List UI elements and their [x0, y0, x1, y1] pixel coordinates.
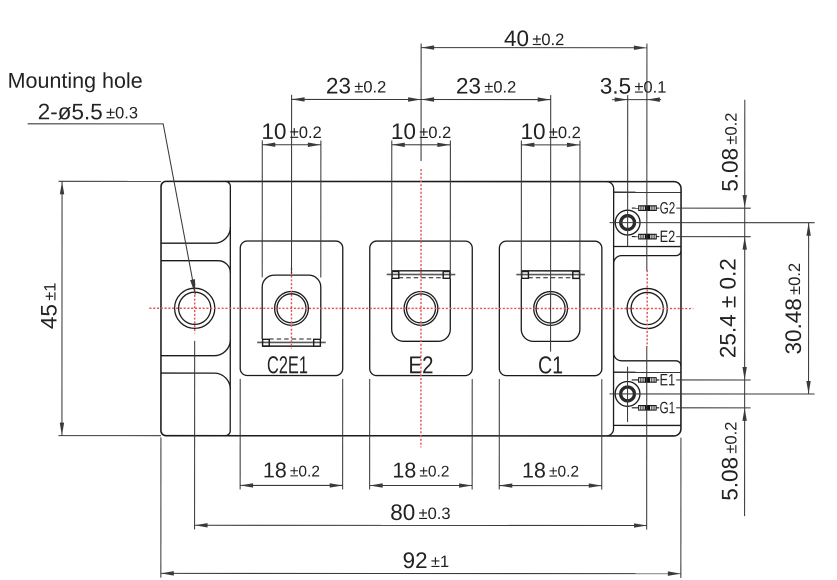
dimension 10 C1 text — [522, 123, 580, 139]
terminal E2 label — [410, 356, 432, 373]
pin G2 label — [660, 202, 674, 214]
dimension 30.48 text — [785, 264, 801, 354]
red centerline terminal C2E1 vertical — [290, 268, 292, 349]
mounting hole left — [175, 288, 215, 328]
pin column vertical extension line upper — [646, 44, 648, 271]
centerline C1 vertical black — [550, 95, 552, 351]
pin E1 label — [661, 374, 675, 385]
mounting hole spec text — [39, 104, 137, 120]
right stacked dimension line — [744, 100, 746, 516]
dimension 45 text — [41, 283, 57, 328]
pin G2 — [632, 207, 639, 209]
dimension 18 C1 line — [499, 485, 601, 487]
dimension 45 extension lines — [59, 180, 161, 182]
dimension 23 right line — [421, 99, 551, 101]
terminal C2E1 outer block — [240, 241, 343, 376]
pin G1 — [632, 407, 639, 409]
pin G1 label — [660, 402, 674, 414]
mounting hole right — [627, 288, 667, 328]
pin G1 extension line — [676, 407, 751, 409]
pin E1 extension line — [676, 379, 751, 381]
dimension 80 line — [195, 524, 647, 526]
dimension 23 left line — [292, 98, 421, 100]
gate block bottom inner lines — [614, 371, 681, 373]
mounting hole note text — [9, 72, 141, 92]
red centerline terminal E2 vertical — [420, 169, 422, 447]
terminal C2E1 label — [268, 356, 307, 373]
terminal C2E1 lug — [262, 275, 321, 339]
terminal E2 screw hole — [404, 291, 438, 325]
dimension 45 line — [61, 181, 63, 435]
dimension 10 C1 extension lines — [520, 141, 522, 278]
terminal E2 clamp bar — [392, 270, 450, 272]
dimension 30.48 line — [808, 223, 810, 394]
terminal C1 clamp bar — [522, 270, 580, 272]
right middle section left edge — [614, 264, 622, 361]
gate block bottom top edge — [622, 361, 681, 366]
dimension 18 C2E1 extension lines — [239, 379, 241, 489]
dimension 3.5 text — [601, 78, 666, 94]
dimension 18 C2E1 text — [265, 462, 320, 477]
dimension 18 C2E1 line — [240, 484, 342, 486]
left hole vertical extension line — [194, 341, 196, 529]
dimension 40 text — [504, 30, 563, 46]
dimension 10 C1 line — [521, 144, 580, 146]
pin E1 — [632, 379, 639, 381]
gate screw bottom vertical centerline — [627, 367, 629, 422]
dimension 10 E2 line — [392, 144, 451, 146]
terminal C2E1 clamp bar — [269, 338, 314, 340]
dimension 10 C2E1 line — [262, 144, 321, 146]
dimension 18 C1 text — [524, 463, 579, 478]
gate screw top horizontal centerline / 30.48 extension — [610, 222, 815, 224]
dimension 23 left text — [327, 78, 385, 94]
dimension 18 E2 text — [394, 462, 449, 477]
terminal C1 outer block — [499, 241, 602, 376]
gate screw top vertical centerline — [627, 103, 629, 246]
terminal E2 outer block — [370, 241, 473, 376]
dimension 5.08 top text — [722, 113, 738, 190]
pin E2 — [632, 236, 639, 238]
dimension 18 E2 line — [370, 484, 473, 486]
gate screw bottom horizontal centerline / 30.48 extension — [609, 393, 814, 395]
terminal C1 lug — [521, 278, 580, 341]
dimension 92 line — [161, 572, 681, 574]
terminal C2E1 screw hole — [275, 291, 309, 325]
gate block top inner lines — [614, 191, 681, 193]
gate block top bottom edge — [614, 251, 681, 264]
pin column vertical extension line lower — [646, 346, 648, 529]
flange rib upper pair — [161, 227, 230, 243]
dimension 18 C1 extension lines — [498, 379, 500, 490]
centerline E2 vertical black — [420, 44, 422, 161]
terminal C1 screw hole — [534, 292, 568, 326]
dimension 92 extension lines — [160, 437, 162, 577]
pin G2 extension line — [676, 207, 751, 209]
dimension 92 text — [404, 552, 449, 568]
dimension 18 E2 extension lines — [369, 379, 371, 489]
centerline C2E1 vertical black — [291, 95, 293, 274]
dimension 10 C2E1 text — [263, 123, 321, 139]
dimension 10 C2E1 extension lines — [261, 140, 263, 277]
dimension 25.4 text — [720, 259, 736, 357]
gate screw top — [615, 210, 640, 235]
mounting hole leader line — [28, 124, 196, 295]
gate screw bottom — [615, 382, 640, 407]
dimension 23 right text — [457, 78, 515, 94]
raised body right edge — [607, 182, 614, 436]
dimension 3.5 extension line screw column — [627, 95, 629, 103]
dimension 3.5 line — [612, 99, 661, 101]
pin E2 extension line — [676, 236, 751, 238]
terminal C1 label — [539, 356, 562, 373]
dimension 10 E2 text — [393, 123, 451, 139]
flange step edge — [225, 181, 230, 435]
red centerline left hole vertical — [194, 283, 196, 333]
dimension 5.08 bottom text — [722, 422, 738, 499]
module body outline — [161, 181, 681, 436]
red horizontal centerline — [149, 307, 693, 309]
flange rib lower pair — [161, 340, 230, 356]
red centerline right hole vertical — [646, 270, 648, 346]
pin E2 label — [661, 231, 675, 243]
terminal E2 lug — [392, 278, 451, 341]
dimension 40 line — [421, 47, 647, 49]
dimension 80 text — [391, 504, 450, 520]
dimension 10 E2 extension lines — [391, 140, 393, 277]
